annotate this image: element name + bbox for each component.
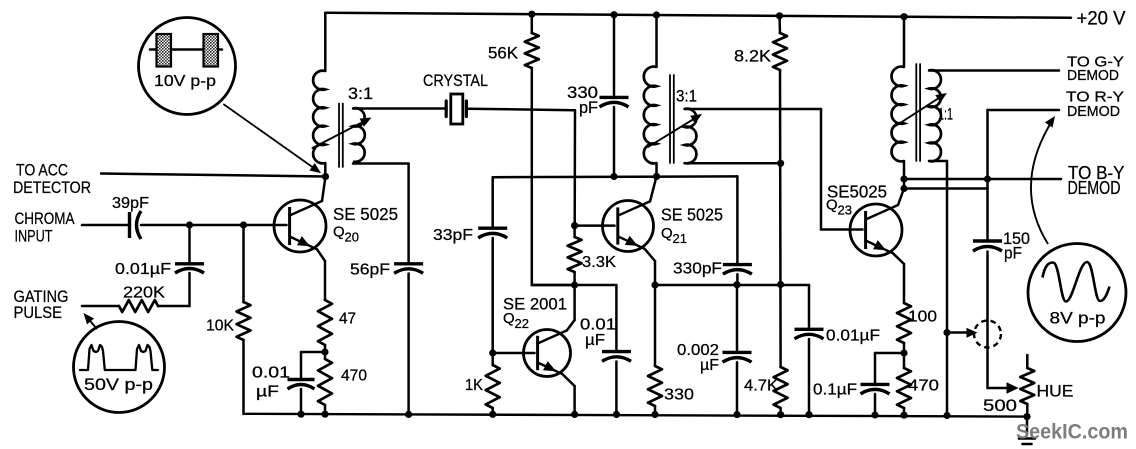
wire Q22 base lead <box>493 352 535 355</box>
svg-text:100: 100 <box>908 309 937 326</box>
wire 470 bottom lead <box>324 405 327 414</box>
label 50V p-p <box>84 376 153 394</box>
node T2 secondary/8.2K junction <box>777 160 784 167</box>
svg-text:47: 47 <box>339 311 356 328</box>
wire 0.002uF top lead <box>736 285 739 351</box>
label TO R-Y <box>1066 89 1124 106</box>
label 0.01uF <box>115 261 171 278</box>
label SE 5025 (Q21) <box>661 205 723 225</box>
label 0.002 <box>677 342 719 359</box>
wire bias line y177 <box>493 175 738 178</box>
wire hue bottom lead <box>1026 404 1029 417</box>
waveform burst block 1 <box>157 34 172 67</box>
node gnd 56pF <box>405 411 412 418</box>
svg-text:3:1: 3:1 <box>348 85 373 103</box>
transistor Q22 SE2001 <box>524 330 571 377</box>
resistor R 3.3K <box>568 237 582 272</box>
node gnd 0.1uF <box>871 411 878 418</box>
svg-text:DEMOD: DEMOD <box>1067 103 1120 120</box>
label 150 <box>1003 230 1030 248</box>
wire Q21 base lead <box>575 224 615 227</box>
svg-text:0.01: 0.01 <box>580 317 616 334</box>
label GATING <box>14 287 69 306</box>
waveform circle 50V p-p <box>74 322 165 413</box>
label 330pF (Q21) <box>673 261 722 278</box>
capacitor C 0.1uF <box>861 384 890 394</box>
label 39pF <box>112 195 149 212</box>
arrow T1 tuning <box>313 118 372 149</box>
label DETECTOR <box>13 178 91 197</box>
wire 0.01uF top lead <box>188 225 191 262</box>
svg-text:SeekIC.com: SeekIC.com <box>1016 420 1128 444</box>
transistor Q23 SE5025 <box>850 204 902 256</box>
resistor R 470 (Q23) <box>897 368 911 408</box>
wire 0.01uF(right) bottom <box>808 339 811 415</box>
wire ACC detector line <box>101 174 326 177</box>
node 8.2K/4.7K junction <box>777 281 784 288</box>
ground symbol <box>1019 417 1035 444</box>
svg-text:µF: µF <box>585 332 605 349</box>
svg-text:DEMOD: DEMOD <box>1068 178 1121 198</box>
svg-text:56pF: 56pF <box>350 262 390 279</box>
svg-text:21: 21 <box>673 231 687 246</box>
label uF (0.002) <box>700 357 719 374</box>
transformer T1 primary winding <box>313 71 325 164</box>
svg-text:0.01µF: 0.01µF <box>115 261 171 278</box>
wire 10K top lead <box>242 225 245 302</box>
wire 0.002uF bottom lead <box>736 362 739 414</box>
waveform burst block 2 <box>204 34 219 67</box>
node 330pF top rail junction <box>610 11 617 18</box>
svg-text:8.2K: 8.2K <box>734 48 771 66</box>
svg-text:1K: 1K <box>465 377 483 394</box>
node top-rail to T1 primary <box>324 13 327 71</box>
svg-text:+20 V: +20 V <box>1077 9 1126 30</box>
capacitor C 56pF <box>394 264 423 274</box>
label SE 2001 <box>503 295 567 314</box>
node Q20 emitter junction <box>321 348 328 355</box>
svg-text:3:1: 3:1 <box>676 88 697 106</box>
svg-text:56K: 56K <box>488 45 518 63</box>
resistor R 330 <box>648 366 662 406</box>
label 47 <box>339 311 356 328</box>
label 10K <box>206 318 234 335</box>
waveform burst line <box>150 48 222 51</box>
label T2 ratio 3:1 <box>676 88 697 106</box>
capacitor C 0.002uF <box>723 352 752 362</box>
svg-text:CRYSTAL: CRYSTAL <box>423 71 488 90</box>
resistor R 100 <box>897 303 911 343</box>
node 330pF/bias junction <box>610 173 617 180</box>
wire 33pF to Q22 base <box>491 238 494 353</box>
capacitor C 330pF (crystal) <box>600 97 629 107</box>
label 8V p-p <box>1050 310 1106 328</box>
wire TO B-Y line <box>904 178 1061 181</box>
node chroma/10K junction <box>240 221 247 228</box>
svg-text:0.1µF: 0.1µF <box>813 382 857 399</box>
wire 33pF drop <box>491 177 494 226</box>
node T3-ground line / hue arrow junction <box>943 329 950 336</box>
label 470 (Q23) <box>908 378 939 395</box>
capacitor C 0.01uF (right) <box>795 329 824 339</box>
wire Q21 emitter lead <box>645 249 655 285</box>
wire T2 primary top lead <box>655 15 658 67</box>
wire T3 secondary bottom to ground <box>929 161 947 416</box>
node gnd Q22 emitter <box>571 411 578 418</box>
node gnd 0.002uF <box>733 411 740 418</box>
wire node line y285 left segment <box>532 284 617 287</box>
wire node line y285 right segment <box>655 284 809 287</box>
transformer T1 secondary winding <box>353 108 365 162</box>
label CHROMA <box>15 209 76 228</box>
wire 56pF bottom lead <box>407 274 410 415</box>
wire 0.01uF bypass top <box>301 352 325 378</box>
svg-text:pF: pF <box>1004 245 1022 263</box>
capacitor C 0.01uF gating <box>175 264 204 273</box>
svg-text:4.7K: 4.7K <box>744 378 778 395</box>
wire 4.7K bottom lead <box>779 408 782 415</box>
wire 3.3K leads <box>573 226 576 285</box>
wire 100 to 470 <box>903 343 906 368</box>
svg-text:CHROMA: CHROMA <box>15 209 76 228</box>
label SE 5025 (Q20) <box>333 204 398 224</box>
waveform circle 8V p-p <box>1028 244 1126 342</box>
svg-text:10K: 10K <box>206 318 234 335</box>
svg-text:1:1: 1:1 <box>938 106 953 124</box>
label 330 (Q21 emitter) <box>664 387 694 404</box>
watermark SeekIC.com <box>1016 420 1128 444</box>
wire T3 primary top lead <box>903 17 906 67</box>
wire chroma to Q20 base <box>141 224 287 227</box>
label Q20 <box>333 223 359 244</box>
wire 0.01uF(right) top <box>808 285 811 328</box>
label SE5025 (Q23) <box>827 182 887 202</box>
node Q22 base junction <box>489 349 496 356</box>
wire 56K long drop <box>532 68 575 285</box>
label DEMOD (G-Y) <box>1067 67 1119 84</box>
label DEMOD (R-Y) <box>1067 103 1120 120</box>
wire 47 to 470 <box>324 345 327 359</box>
wire 470 Q23 bottom lead <box>903 408 906 415</box>
svg-text:330: 330 <box>664 387 694 404</box>
svg-text:330pF: 330pF <box>673 261 722 278</box>
transformer T3 secondary winding <box>929 70 941 161</box>
label 100 <box>908 309 937 326</box>
wire 330pF2 bottom lead <box>736 274 739 285</box>
wire 150pF top lead <box>986 179 989 240</box>
arrow 8V circle to R-Y line <box>1031 116 1055 244</box>
node T2 primary/bias junction <box>653 173 660 180</box>
label 0.01 (Q22) <box>580 317 616 334</box>
svg-text:23: 23 <box>838 203 852 218</box>
svg-text:22: 22 <box>515 316 529 331</box>
wire 0.1uF bottom <box>874 394 877 415</box>
wire 150pF to hue wiper <box>986 252 989 389</box>
transformer T3 core <box>916 64 920 161</box>
label 470 (Q20) <box>341 368 367 385</box>
wire 330pF top lead <box>613 15 616 96</box>
node gnd 4.7K <box>777 411 784 418</box>
test point dashed circle <box>974 321 1001 348</box>
wire 0.01uF Q22 leads <box>615 285 618 414</box>
node T3 top rail junction <box>900 13 907 20</box>
node gnd T3 secondary <box>943 412 950 419</box>
wire 56K top lead <box>531 14 534 33</box>
wire T1 secondary bottom lead <box>353 164 409 263</box>
label pF (crystal) <box>579 99 598 117</box>
waveform circle 10V p-p <box>139 18 236 115</box>
wire Q22 emitter lead <box>562 374 574 414</box>
svg-text:220K: 220K <box>123 285 165 302</box>
wire +20V top supply rail <box>325 13 1071 18</box>
svg-text:pF: pF <box>579 99 598 117</box>
wire 8.2K drop <box>779 70 782 367</box>
node gnd 0.01uF right <box>805 411 812 418</box>
label 56K <box>488 45 518 63</box>
wire ground rail <box>244 414 1028 417</box>
transformer T1 core <box>339 104 343 168</box>
label PULSE <box>14 303 63 322</box>
svg-text:PULSE: PULSE <box>14 303 63 322</box>
wire 330 top lead <box>654 285 657 366</box>
svg-text:33pF: 33pF <box>433 227 473 244</box>
svg-text:DEMOD: DEMOD <box>1067 67 1119 84</box>
arrow 50V circle to gating line <box>84 313 97 329</box>
capacitor C 330pF (Q21) <box>723 265 752 275</box>
wire gating pulse lead <box>82 305 119 308</box>
node 8.2K top rail junction <box>776 12 783 19</box>
wire chroma input <box>82 224 128 227</box>
wire Q20 collector to node A <box>322 177 326 202</box>
svg-text:Q: Q <box>333 223 345 240</box>
node A junction T1/Q20 collector/ACC <box>322 173 329 180</box>
capacitor C 0.01uF (Q22) <box>602 352 631 362</box>
wire 330pF bottom lead <box>613 107 616 177</box>
label INPUT <box>15 227 53 246</box>
capacitor C 0.01uF Q20 bypass <box>288 380 315 390</box>
node 56K top rail junction <box>528 11 535 18</box>
wire crystal to Q21 base drop <box>469 109 576 226</box>
wire 8.2K top lead <box>778 16 781 33</box>
svg-text:39pF: 39pF <box>112 195 149 212</box>
label 56pF <box>350 262 390 279</box>
wire Q23 collector line y188 <box>904 187 988 190</box>
node T3 primary/B-Y junction <box>900 175 907 182</box>
svg-text:50V p-p: 50V p-p <box>84 376 153 394</box>
resistor R 470 <box>318 359 332 405</box>
node gnd 470 Q20 <box>321 411 328 418</box>
node gnd 0.01uF Q22 <box>613 411 620 418</box>
crystal Y1 <box>446 94 466 124</box>
label 0.01 (bypass) <box>252 365 290 382</box>
label DEMOD (B-Y) <box>1068 178 1121 198</box>
svg-text:0.01µF: 0.01µF <box>826 328 880 345</box>
resistor R 4.7K <box>774 367 788 408</box>
svg-text:µF: µF <box>256 384 279 401</box>
node Q21 emitter junction <box>651 281 658 288</box>
label 10V p-p <box>154 73 216 90</box>
wire TO G-Y line <box>929 69 1059 72</box>
label uF (bypass) <box>256 384 279 401</box>
wire T2 secondary bottom lead <box>685 162 781 165</box>
node gnd 0.01uF bypass <box>297 411 304 418</box>
node B-Y/150pF junction <box>984 175 991 182</box>
wire R-Y drop to B-Y node <box>986 110 989 179</box>
wire hue wiper arm <box>988 382 1019 394</box>
node chroma/0.01uF junction <box>186 221 193 228</box>
svg-text:DETECTOR: DETECTOR <box>13 178 91 197</box>
transistor Q20 SE5025 <box>274 200 326 252</box>
label 330 (pF crystal) <box>567 84 598 102</box>
node gnd 1K <box>489 411 496 418</box>
wire hue top stub <box>1026 355 1029 368</box>
node 0.002uF junction <box>733 281 740 288</box>
label 8.2K <box>734 48 771 66</box>
resistor R 10K <box>237 302 251 340</box>
wire Q22 collector lead <box>567 285 575 330</box>
label 0.1uF <box>813 382 857 399</box>
resistor R 8.2K <box>773 33 787 70</box>
svg-text:10V p-p: 10V p-p <box>154 73 216 90</box>
label T3 ratio 1:1 <box>938 106 953 124</box>
svg-text:SE 5025: SE 5025 <box>661 205 723 225</box>
svg-text:470: 470 <box>908 378 939 395</box>
label uF (Q22) <box>585 332 605 349</box>
svg-text:470: 470 <box>341 368 367 385</box>
transformer T2 secondary winding <box>685 109 697 164</box>
svg-text:Q: Q <box>661 225 673 242</box>
label 4.7K <box>744 378 778 395</box>
wire bias line corner drop <box>736 176 739 263</box>
label 1K <box>465 377 483 394</box>
wire 0.01uF bottom to 220K <box>158 273 190 306</box>
svg-text:SE 5025: SE 5025 <box>333 204 398 224</box>
label Q21 <box>661 225 687 246</box>
label TO G-Y <box>1067 54 1124 71</box>
svg-text:Q: Q <box>503 310 515 327</box>
node gnd HUE <box>1023 413 1030 420</box>
resistor R 1K <box>486 365 500 408</box>
capacitor C 150pF <box>973 241 1002 251</box>
label TO ACC <box>16 161 68 180</box>
resistor R 220K <box>119 300 158 312</box>
label T1 ratio 3:1 <box>348 85 373 103</box>
capacitor C 33pF <box>478 228 507 238</box>
label 220K <box>123 285 165 302</box>
transformer T3 primary winding <box>892 67 904 162</box>
node 3.3K/Q22 collector junction <box>571 281 578 288</box>
node T2 top rail junction <box>653 11 660 18</box>
wire 0.1uF top <box>875 353 904 383</box>
transformer T2 core <box>670 75 674 163</box>
label CRYSTAL <box>423 71 488 90</box>
arrow T3 tuning <box>894 93 947 127</box>
label 3.3K <box>582 254 616 271</box>
wire 330 bottom lead <box>654 406 657 415</box>
capacitor C 39pF <box>130 211 142 239</box>
node gnd 470 Q23 <box>900 412 907 419</box>
arrow T2 tuning <box>648 114 702 147</box>
wire Q23 collector lead <box>898 189 904 206</box>
wire 1K leads <box>491 353 494 414</box>
label 33pF <box>433 227 473 244</box>
svg-text:TO ACC: TO ACC <box>16 161 68 180</box>
svg-text:Q: Q <box>826 197 838 214</box>
label TO B-Y <box>1068 162 1125 183</box>
wire T1 secondary top to crystal <box>353 107 445 110</box>
svg-text:8V p-p: 8V p-p <box>1050 310 1106 328</box>
waveform sine 8V <box>1043 262 1110 302</box>
waveform gating pulses <box>80 345 158 370</box>
wire Q23 emitter lead <box>893 253 904 303</box>
wire 10K bottom lead <box>242 340 245 414</box>
wire T2 primary bottom lead <box>655 163 658 176</box>
label HUE <box>1037 382 1074 401</box>
label 500 <box>983 397 1017 415</box>
wire TO R-Y line <box>988 109 1060 112</box>
wire T2 secondary top to Q23 base <box>685 109 863 230</box>
resistor R 56K <box>525 33 539 68</box>
svg-text:HUE: HUE <box>1037 382 1074 401</box>
resistor R 47 <box>318 300 332 345</box>
svg-text:µF: µF <box>700 357 719 374</box>
svg-text:500: 500 <box>983 397 1017 415</box>
label Q22 <box>503 310 529 331</box>
node Q21 base junction <box>571 222 578 229</box>
label +20V <box>1077 9 1126 30</box>
wire T3 primary bottom lead <box>903 161 906 189</box>
arrow 10V circle to node A <box>224 105 321 174</box>
node gnd 330 <box>651 411 658 418</box>
wire T1 primary bottom lead <box>324 163 327 177</box>
transformer T2 primary winding <box>644 67 657 164</box>
node Q23 emitter junction <box>900 349 907 356</box>
transistor Q21 SE5025 <box>603 201 654 252</box>
potentiometer R 500 HUE <box>1020 368 1034 404</box>
svg-text:20: 20 <box>345 229 359 244</box>
wire Q20 emitter lead <box>317 249 325 300</box>
svg-text:INPUT: INPUT <box>15 227 53 246</box>
label 0.01uF (right) <box>826 328 880 345</box>
label pF (150) <box>1004 245 1022 263</box>
svg-text:0.01: 0.01 <box>252 365 290 382</box>
svg-text:3.3K: 3.3K <box>582 254 616 271</box>
wire Q21 collector to T2 <box>650 176 657 201</box>
node Q23 collector junction <box>900 185 907 192</box>
label Q23 <box>826 197 852 218</box>
arrow to hue test point <box>947 328 978 338</box>
wire 0.01uF bypass bottom <box>300 389 303 414</box>
